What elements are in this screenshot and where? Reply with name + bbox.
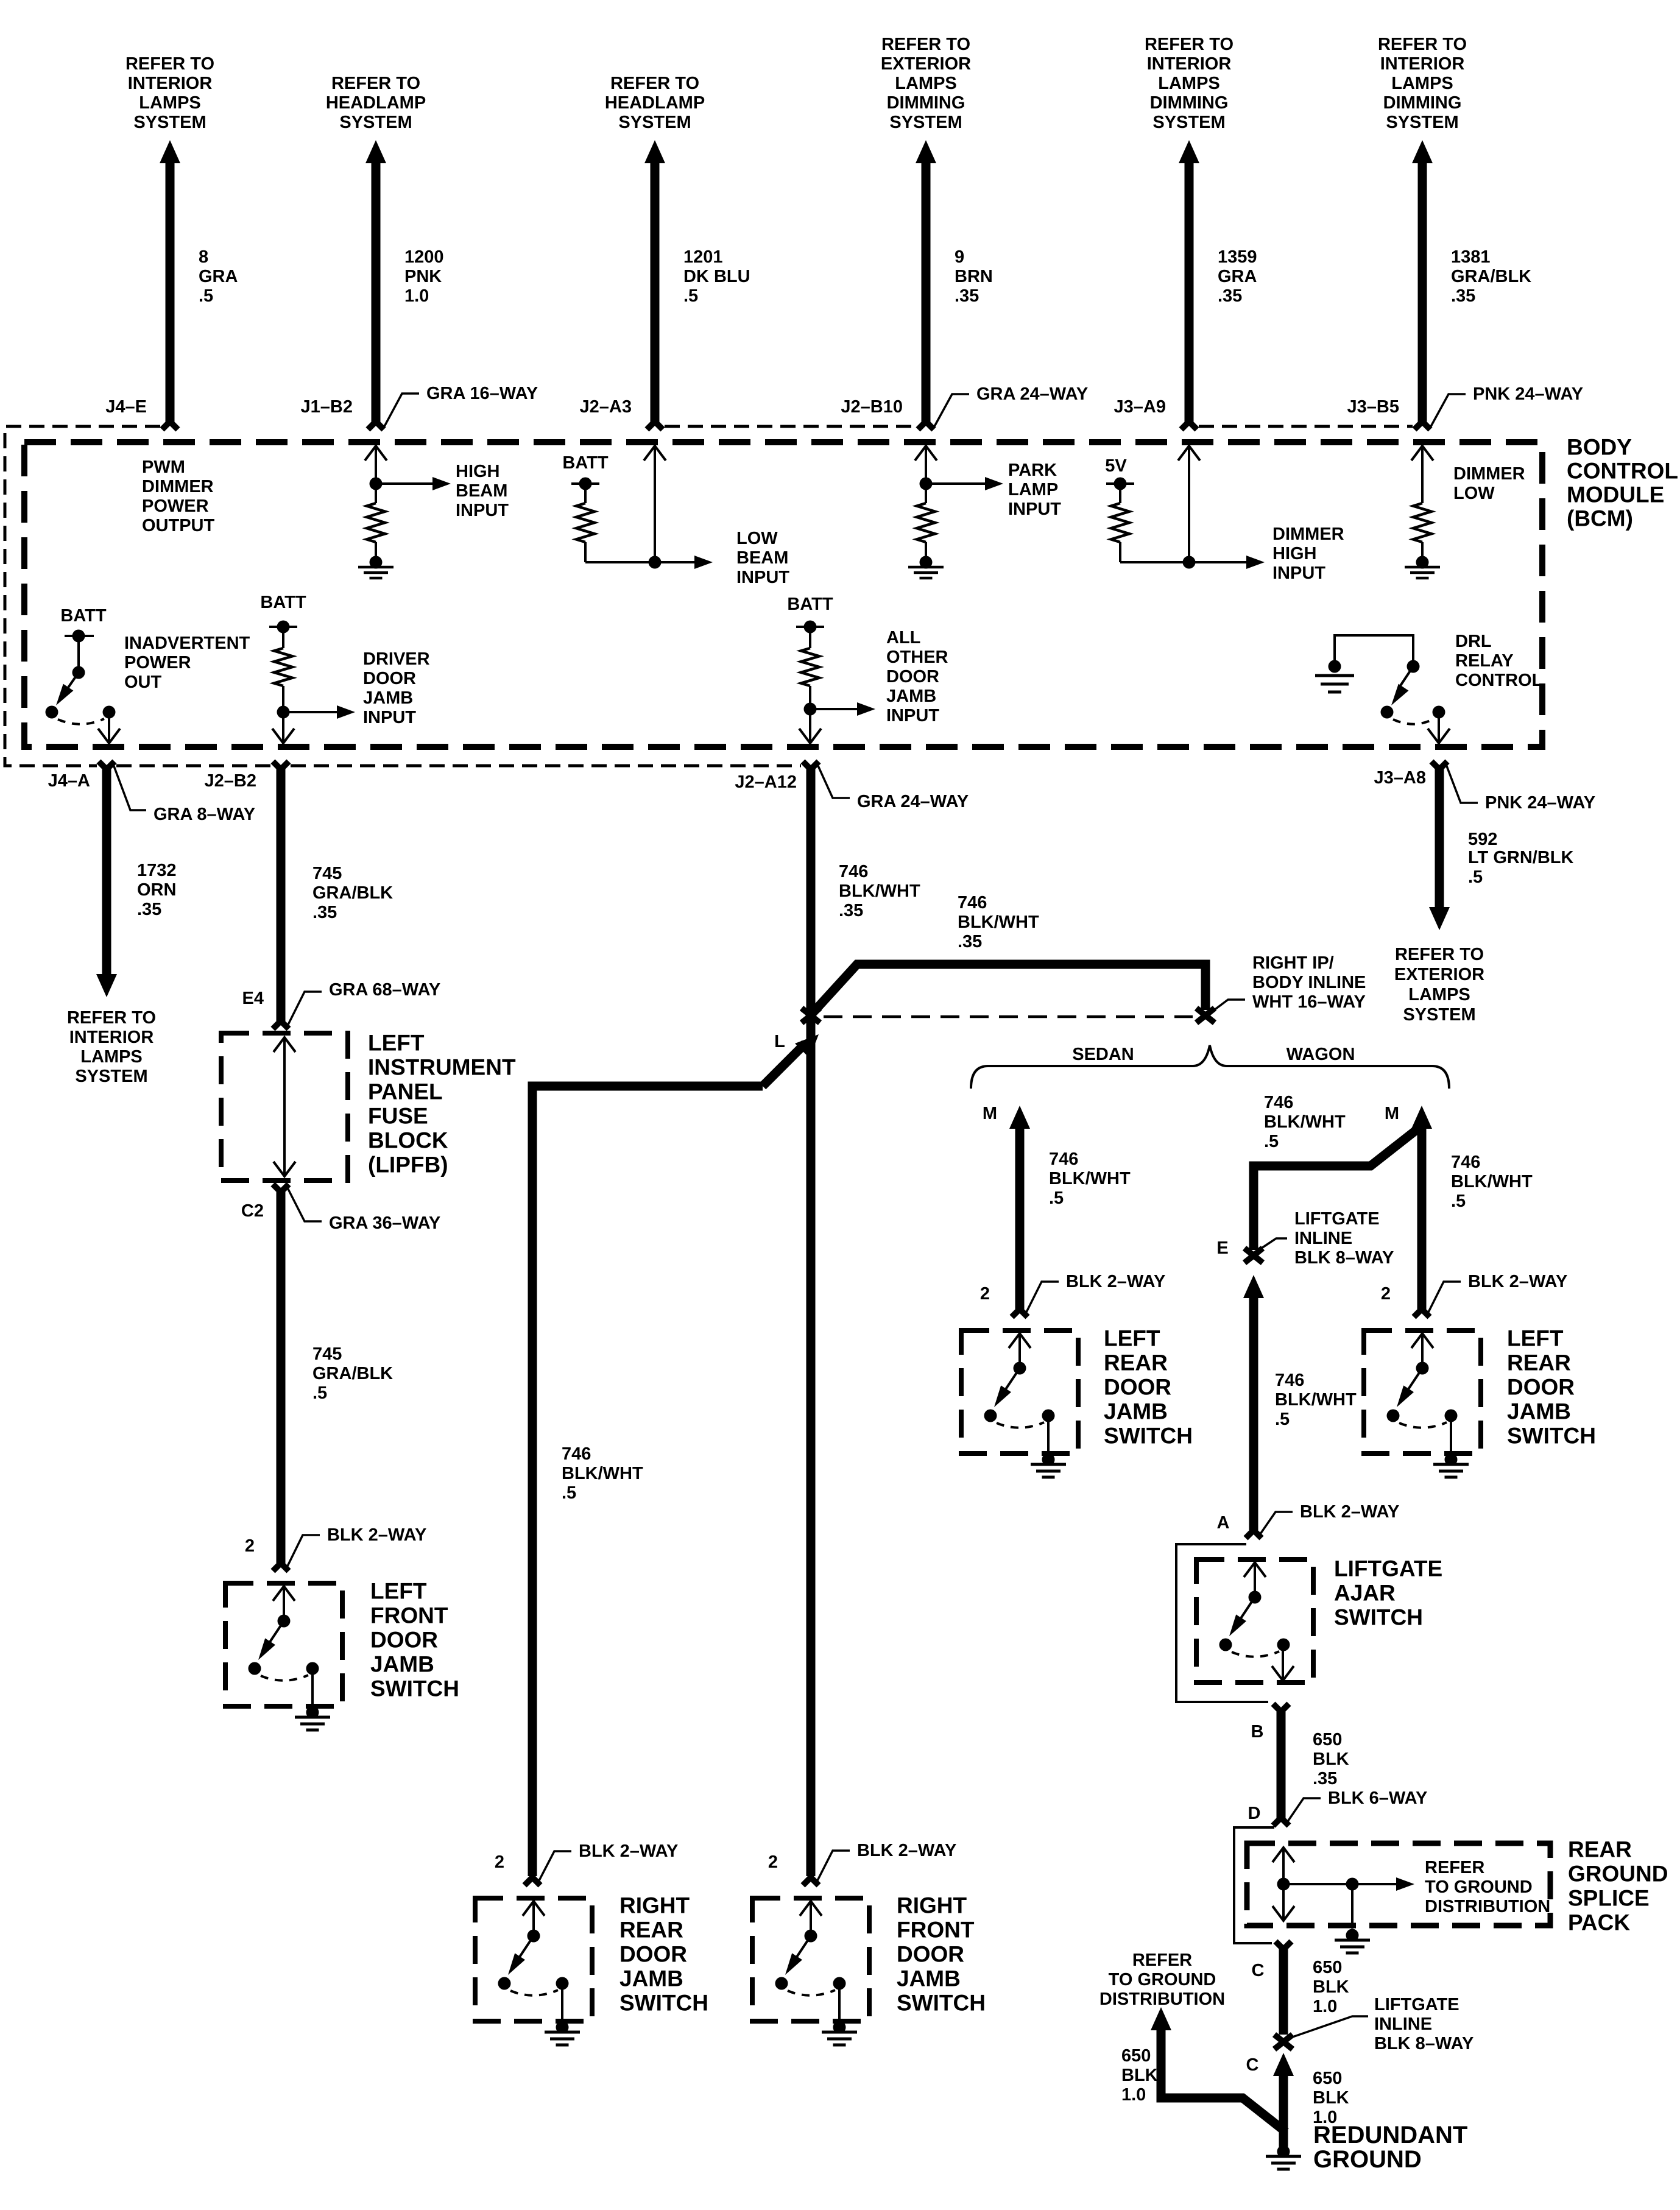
svg-text:PACK: PACK — [1568, 1910, 1630, 1935]
svg-text:LAMPS: LAMPS — [139, 93, 201, 113]
ground DRL relay — [1315, 674, 1354, 677]
LIPFB dashed component box — [221, 1033, 348, 1181]
liftgate ajar switch: pivot contact — [1219, 1639, 1232, 1651]
svg-text:REFER TO: REFER TO — [610, 74, 699, 93]
svg-text:BEAM: BEAM — [456, 481, 507, 501]
svg-text:PNK 24–WAY: PNK 24–WAY — [1473, 384, 1583, 404]
svg-text:INLINE: INLINE — [1294, 1229, 1352, 1248]
node J2-B10 junction — [920, 478, 933, 490]
inadvertent switch blade — [63, 673, 79, 694]
svg-text:EXTERIOR: EXTERIOR — [1394, 965, 1484, 984]
wire 1201 DK BLU to J2&#8211;A3 — [651, 163, 660, 422]
left rear door jamb switch (sedan): switch blade arrow — [1001, 1368, 1020, 1396]
arrowhead NE at node L — [795, 1034, 819, 1058]
svg-text:.5: .5 — [199, 286, 213, 306]
svg-text:C: C — [1246, 2055, 1259, 2075]
svg-text:.5: .5 — [1275, 1410, 1290, 1429]
svg-text:E4: E4 — [242, 989, 264, 1008]
svg-text:REAR: REAR — [1507, 1350, 1571, 1375]
svg-text:FRONT: FRONT — [370, 1603, 448, 1628]
DRL relay pivot — [1381, 706, 1394, 719]
right front door jamb switch: common contact — [805, 1930, 817, 1943]
svg-text:RIGHT: RIGHT — [897, 1893, 967, 1918]
connector chevron J3-A8 — [1431, 761, 1447, 769]
svg-text:FUSE: FUSE — [368, 1104, 428, 1129]
node 5V — [1114, 478, 1127, 490]
leader GRA 24-WAY (J2-A12) — [817, 764, 850, 798]
svg-text:GRA 24–WAY: GRA 24–WAY — [976, 384, 1088, 404]
svg-text:BLK/WHT: BLK/WHT — [1049, 1169, 1131, 1188]
node BATT all other door — [804, 621, 817, 634]
svg-text:M: M — [983, 1104, 997, 1123]
svg-text:HIGH: HIGH — [1272, 544, 1317, 563]
svg-text:C2: C2 — [241, 1201, 264, 1221]
left rear door jamb switch (wagon): pivot contact — [1387, 1410, 1400, 1422]
DRL relay blade — [1399, 666, 1413, 688]
wire to ALL OTHER DOOR JAMB INPUT — [810, 708, 857, 710]
svg-text:SWITCH: SWITCH — [370, 1676, 459, 1701]
svg-text:LOW: LOW — [1453, 484, 1495, 503]
right front door jamb switch: travel arc — [788, 1990, 835, 1996]
svg-text:REFER TO: REFER TO — [881, 35, 970, 54]
svg-text:REFER TO: REFER TO — [1378, 35, 1467, 54]
svg-text:OUTPUT: OUTPUT — [142, 516, 215, 535]
svg-text:1.0: 1.0 — [1313, 1997, 1337, 2016]
wire 745 GRA/BLK .5 — [277, 1192, 286, 1563]
leader RIGHT IP/BODY INLINE — [1213, 1000, 1245, 1011]
svg-text:SEDAN: SEDAN — [1072, 1045, 1134, 1064]
driver door output arrow — [282, 712, 284, 744]
svg-text:BLK/WHT: BLK/WHT — [562, 1464, 643, 1483]
connector chevron J2-A12 — [803, 761, 819, 769]
leader BLK 6-WAY — [1286, 1798, 1321, 1823]
left rear door jamb switch (sedan): dashed component box — [961, 1330, 1078, 1453]
svg-text:J4–A: J4–A — [48, 771, 90, 791]
liftgate ajar bypass outline — [1176, 1544, 1268, 1702]
liftgate ajar switch: dashed component box — [1196, 1559, 1313, 1682]
svg-text:1.0: 1.0 — [404, 286, 429, 306]
right rear door jamb switch: output contact — [556, 1977, 569, 1990]
svg-text:BLOCK: BLOCK — [368, 1128, 448, 1153]
svg-text:(LIPFB): (LIPFB) — [368, 1153, 448, 1177]
svg-text:JAMB: JAMB — [1104, 1399, 1168, 1424]
svg-text:SYSTEM: SYSTEM — [1152, 113, 1225, 132]
arrowhead up J4&#8211;E — [160, 140, 180, 163]
right rear door jamb switch: dashed component box — [475, 1898, 592, 2021]
leader GRA 16&#8211;WAY — [384, 394, 419, 426]
svg-text:BODY INLINE: BODY INLINE — [1252, 973, 1366, 992]
svg-text:SYSTEM: SYSTEM — [1386, 113, 1458, 132]
connector chevron A liftgate ajar — [1246, 1530, 1262, 1538]
svg-text:LAMPS: LAMPS — [1408, 985, 1470, 1004]
BCM J2-B10 input arrow — [925, 445, 927, 484]
svg-text:BEAM: BEAM — [736, 548, 788, 568]
node J3-A9 junction — [1183, 556, 1196, 569]
ground J3-B5 — [1416, 556, 1429, 569]
svg-text:INTERIOR: INTERIOR — [1380, 54, 1465, 74]
svg-text:1359: 1359 — [1218, 247, 1257, 267]
left rear door jamb switch (wagon): travel arc — [1399, 1422, 1447, 1428]
svg-text:DIMMER: DIMMER — [1272, 524, 1344, 544]
wire to DIMMER HIGH INPUT — [1189, 561, 1246, 563]
svg-text:SYSTEM: SYSTEM — [75, 1067, 147, 1086]
leader LIFTGATE INLINE BLK 8-WAY (C) — [1291, 2016, 1368, 2038]
right rear door jamb switch: wire to ground — [561, 1983, 563, 2025]
svg-text:GRA 68–WAY: GRA 68–WAY — [329, 980, 440, 1000]
svg-text:BLK 6–WAY: BLK 6–WAY — [1328, 1788, 1427, 1808]
svg-text:PANEL: PANEL — [368, 1079, 443, 1104]
svg-text:.5: .5 — [312, 1383, 327, 1403]
wire 746 BLK/WHT .35 (J2-A12) — [806, 769, 816, 1876]
svg-text:JAMB: JAMB — [897, 1966, 961, 1991]
svg-text:GRA: GRA — [1218, 267, 1257, 286]
rear ground splice pack dashed box — [1247, 1843, 1550, 1926]
wire 650 BLK .35 — [1277, 1712, 1286, 1818]
wire 650 BLK 1.0 (upper) — [1279, 1949, 1288, 2035]
svg-text:650: 650 — [1313, 1730, 1342, 1749]
arrowhead up ground distribution — [1151, 2007, 1171, 2030]
svg-text:M: M — [1385, 1104, 1399, 1123]
svg-text:DIMMER: DIMMER — [1453, 464, 1525, 484]
wire 746 BLK/WHT .35 jog to inline — [813, 964, 1205, 1013]
resistor J3-B5 dimmer low — [1413, 503, 1431, 542]
svg-text:DOOR: DOOR — [370, 1628, 438, 1653]
left rear door jamb switch (sedan): common contact — [1014, 1362, 1026, 1375]
connector chevron B — [1273, 1704, 1289, 1712]
leader BLK 2-WAY LRD wagon — [1427, 1282, 1461, 1315]
svg-text:745: 745 — [312, 864, 342, 883]
wire 9 BRN to J2&#8211;B10 — [922, 163, 931, 422]
wire 8 GRA to J4&#8211;E — [166, 163, 175, 422]
connector chevron RRD switch — [524, 1877, 540, 1885]
wire 650 BLK 1.0 (lower) — [1279, 2074, 1288, 2147]
svg-text:OTHER: OTHER — [886, 648, 948, 667]
svg-text:ORN: ORN — [137, 880, 176, 900]
arrowhead down J4-A — [96, 974, 117, 997]
svg-text:BLK: BLK — [1313, 1749, 1349, 1769]
svg-text:746: 746 — [958, 893, 987, 913]
svg-text:BATT: BATT — [260, 593, 306, 612]
svg-text:D: D — [1248, 1804, 1261, 1823]
svg-text:J1–B2: J1–B2 — [301, 397, 353, 417]
svg-text:.5: .5 — [1468, 867, 1483, 887]
svg-text:J2–B10: J2–B10 — [841, 397, 903, 417]
svg-text:DIMMER: DIMMER — [142, 477, 214, 496]
node BATT driver door — [277, 621, 290, 634]
connector chevron LRD sedan — [1012, 1309, 1028, 1317]
svg-text:SYSTEM: SYSTEM — [618, 113, 691, 132]
svg-text:FRONT: FRONT — [897, 1918, 975, 1943]
svg-text:C: C — [1252, 1961, 1265, 1980]
wire 746 BLK/WHT .5 (wagon M) — [1417, 1127, 1427, 1309]
svg-text:SWITCH: SWITCH — [897, 1991, 986, 2016]
svg-text:LIFTGATE: LIFTGATE — [1374, 1995, 1459, 2014]
svg-text:WAGON: WAGON — [1286, 1045, 1355, 1064]
inadvertent switch output contact — [103, 706, 116, 719]
svg-text:SYSTEM: SYSTEM — [339, 113, 412, 132]
svg-text:BLK/WHT: BLK/WHT — [958, 913, 1039, 932]
svg-text:LAMPS: LAMPS — [895, 74, 957, 93]
svg-text:LEFT: LEFT — [368, 1031, 425, 1056]
svg-text:BLK: BLK — [1121, 2066, 1158, 2085]
arrowhead up J2&#8211;B10 — [916, 140, 936, 163]
wire 592 LT GRN/BLK — [1435, 769, 1444, 908]
svg-text:REDUNDANT: REDUNDANT — [1313, 2122, 1467, 2148]
left front door jamb switch: switch blade arrow — [266, 1621, 284, 1648]
svg-text:SYSTEM: SYSTEM — [889, 113, 962, 132]
leader LIFTGATE INLINE BLK 8-WAY (E) — [1260, 1238, 1287, 1249]
arrowhead PARK LAMP INPUT — [985, 477, 1003, 490]
svg-text:2: 2 — [1381, 1284, 1391, 1304]
right front door jamb switch: input pin open arrow — [810, 1901, 812, 1936]
svg-text:INPUT: INPUT — [456, 501, 509, 520]
svg-text:1200: 1200 — [404, 247, 444, 267]
svg-text:.35: .35 — [312, 903, 337, 922]
ground J1-B2 — [370, 556, 383, 569]
left rear door jamb switch (wagon): common contact — [1416, 1362, 1429, 1375]
left rear door jamb switch (wagon): input pin open arrow — [1421, 1333, 1424, 1368]
left front door jamb switch: dashed component box — [225, 1583, 342, 1706]
svg-text:LAMPS: LAMPS — [1158, 74, 1220, 93]
svg-text:TO GROUND: TO GROUND — [1425, 1877, 1533, 1897]
svg-text:DIMMING: DIMMING — [1383, 93, 1462, 113]
svg-text:746: 746 — [839, 862, 868, 881]
left rear door jamb switch (sedan): output contact — [1042, 1410, 1055, 1422]
connector chevron RFD switch — [803, 1877, 819, 1885]
svg-text:DRL: DRL — [1455, 632, 1492, 651]
svg-text:JAMB: JAMB — [1507, 1399, 1571, 1424]
right front door jamb switch: dashed component box — [752, 1898, 869, 2021]
wire to HIGH BEAM INPUT — [376, 482, 432, 485]
svg-text:1201: 1201 — [683, 247, 723, 267]
svg-text:REFER TO: REFER TO — [67, 1008, 156, 1028]
svg-text:INPUT: INPUT — [736, 568, 789, 587]
connector chevron J4-A — [99, 761, 115, 769]
svg-text:INADVERTENT: INADVERTENT — [124, 634, 250, 653]
svg-text:CONTROL: CONTROL — [1567, 459, 1678, 484]
leader BLK 2-WAY LRD sedan — [1025, 1282, 1059, 1315]
right rear door jamb switch: input pin open arrow — [532, 1901, 535, 1936]
arrowhead up J2&#8211;A3 — [644, 140, 665, 163]
liftgate ajar switch: common contact — [1249, 1591, 1262, 1604]
left rear door jamb switch (wagon): wire to ground — [1450, 1416, 1452, 1457]
svg-text:.5: .5 — [1451, 1191, 1466, 1211]
svg-text:SWITCH: SWITCH — [1507, 1424, 1596, 1449]
svg-text:CONTROL: CONTROL — [1455, 671, 1542, 690]
svg-text:.35: .35 — [1313, 1769, 1337, 1788]
svg-text:.5: .5 — [683, 286, 698, 306]
svg-text:.35: .35 — [1451, 286, 1475, 306]
inline connector dashed interface — [824, 1015, 1193, 1019]
svg-text:745: 745 — [312, 1344, 342, 1364]
svg-text:DOOR: DOOR — [886, 667, 939, 687]
BCM J1-B2 input arrow — [375, 445, 377, 484]
connector chevron J4&#8211;E — [162, 422, 178, 429]
wire 1200 PNK to J1&#8211;B2 — [372, 163, 381, 422]
arrowhead up M (wagon) — [1411, 1106, 1432, 1129]
svg-text:.5: .5 — [1264, 1132, 1279, 1151]
svg-text:LIFTGATE: LIFTGATE — [1294, 1209, 1380, 1229]
right front door jamb switch: switch blade arrow — [792, 1936, 811, 1963]
splice pack arrow to ground distribution — [1352, 1883, 1396, 1885]
arrowhead up J3&#8211;B5 — [1412, 140, 1433, 163]
connector chevron LFD switch — [273, 1563, 289, 1571]
svg-text:RELAY: RELAY — [1455, 651, 1514, 671]
left rear door jamb switch (sedan): ground — [1042, 1453, 1055, 1466]
node BATT inadvertent — [72, 630, 85, 643]
leader PNK 24-WAY (J3-A8) — [1446, 764, 1478, 803]
inadvertent switch contact — [72, 666, 85, 679]
svg-text:SYSTEM: SYSTEM — [133, 113, 206, 132]
svg-text:JAMB: JAMB — [619, 1966, 683, 1991]
svg-text:INPUT: INPUT — [1272, 563, 1325, 583]
connector chevron J1&#8211;B2 — [368, 422, 384, 429]
svg-text:DOOR: DOOR — [619, 1942, 687, 1967]
svg-text:650: 650 — [1313, 2069, 1342, 2088]
svg-text:GRA/BLK: GRA/BLK — [312, 1364, 393, 1383]
svg-text:2: 2 — [980, 1284, 990, 1304]
svg-text:BLK 2–WAY: BLK 2–WAY — [1066, 1272, 1165, 1291]
left front door jamb switch: ground — [306, 1706, 319, 1719]
wire to PARK LAMP INPUT — [926, 482, 985, 485]
wire 746 BLK/WHT .5 (sedan) — [1015, 1127, 1025, 1309]
right front door jamb switch: ground — [833, 2021, 846, 2034]
svg-text:SPLICE: SPLICE — [1568, 1886, 1650, 1911]
left rear door jamb switch (sedan): travel arc — [997, 1422, 1044, 1428]
svg-text:BLK/WHT: BLK/WHT — [1275, 1390, 1357, 1410]
arrowhead DIMMER HIGH INPUT — [1246, 556, 1265, 569]
left front door jamb switch: wire to ground — [311, 1668, 314, 1710]
BCM J3-B5 input arrow — [1421, 445, 1424, 503]
svg-text:BLK 8–WAY: BLK 8–WAY — [1374, 2034, 1474, 2053]
arrowhead up C lower — [1273, 2053, 1294, 2076]
left front door jamb switch: pivot contact — [249, 1662, 261, 1675]
connector chevron J2&#8211;A3 — [647, 422, 663, 429]
svg-text:BLK 2–WAY: BLK 2–WAY — [579, 1841, 678, 1861]
svg-text:GROUND: GROUND — [1313, 2146, 1422, 2173]
svg-text:J2–A3: J2–A3 — [580, 397, 632, 417]
wire 1381 GRA/BLK to J3&#8211;B5 — [1418, 163, 1427, 422]
all other door output arrow — [809, 709, 811, 744]
leader GRA 68-WAY — [288, 992, 322, 1026]
leader BLK 2-WAY RFD — [816, 1851, 850, 1883]
arrowhead HIGH BEAM INPUT — [432, 477, 451, 490]
ground redundant — [1277, 2145, 1290, 2158]
left rear door jamb switch (wagon): switch blade arrow — [1404, 1368, 1422, 1396]
left rear door jamb switch (wagon): output contact — [1445, 1410, 1458, 1422]
svg-text:GRA: GRA — [199, 267, 238, 286]
ground splice pack — [1346, 1929, 1359, 1942]
splice pack bus wire — [1283, 1883, 1352, 1885]
svg-text:.35: .35 — [958, 932, 982, 951]
svg-text:BLK 2–WAY: BLK 2–WAY — [1300, 1502, 1399, 1522]
wire 746 BLK/WHT .5 (left leg) — [532, 1086, 763, 1876]
svg-text:GRA/BLK: GRA/BLK — [1451, 267, 1531, 286]
resistor BATT J2-A3 — [584, 484, 587, 503]
left front door jamb switch: output contact — [306, 1662, 319, 1675]
left rear door jamb switch (sedan): input pin open arrow — [1018, 1333, 1021, 1368]
BCM outer dashed outline (thin) — [5, 426, 1413, 766]
svg-text:INLINE: INLINE — [1374, 2014, 1432, 2034]
connector chevron C upper — [1276, 1941, 1291, 1949]
splice pack junction 1 — [1277, 1878, 1290, 1891]
arrowhead LOW BEAM INPUT — [694, 556, 713, 569]
svg-text:L: L — [774, 1032, 785, 1051]
svg-text:HEADLAMP: HEADLAMP — [605, 93, 705, 113]
svg-text:ALL: ALL — [886, 628, 920, 648]
svg-text:DK BLU: DK BLU — [683, 267, 750, 286]
BCM module dashed box — [24, 442, 1542, 747]
resistor 5V J3-A9 — [1119, 484, 1121, 503]
DRL relay top wire — [1335, 635, 1413, 662]
svg-text:746: 746 — [1451, 1153, 1480, 1172]
svg-text:5V: 5V — [1105, 456, 1127, 476]
svg-text:J4–E: J4–E — [105, 397, 147, 417]
svg-text:SWITCH: SWITCH — [1334, 1605, 1423, 1630]
DRL relay output contact — [1433, 706, 1445, 719]
inline connector C (liftgate inline) — [1274, 2035, 1293, 2049]
ground J2-B10 — [920, 556, 933, 569]
liftgate ajar switch output arrow — [1282, 1644, 1284, 1681]
svg-text:(BCM): (BCM) — [1567, 506, 1633, 531]
svg-text:BLK 2–WAY: BLK 2–WAY — [857, 1841, 956, 1860]
inline connector left (WHT 16-WAY) — [802, 1008, 820, 1023]
liftgate ajar switch: output contact — [1277, 1639, 1290, 1651]
leader BLK 2-WAY liftgate ajar — [1259, 1512, 1293, 1536]
wire BATT to junction — [585, 561, 655, 563]
svg-text:GRA 36–WAY: GRA 36–WAY — [329, 1213, 440, 1233]
resistor all other door — [809, 627, 811, 648]
svg-text:BLK/WHT: BLK/WHT — [1451, 1172, 1533, 1191]
arrowhead DRIVER DOOR JAMB INPUT — [337, 705, 355, 719]
svg-text:J3–A8: J3–A8 — [1374, 768, 1426, 788]
liftgate ajar switch: switch blade arrow — [1237, 1597, 1255, 1625]
svg-text:OUT: OUT — [124, 673, 162, 692]
DRL output arrow — [1438, 712, 1440, 744]
DRL relay right contact — [1407, 660, 1420, 673]
inadvertent output arrow — [108, 712, 110, 744]
connector chevron J3&#8211;A9 — [1181, 422, 1197, 429]
svg-text:J2–A12: J2–A12 — [735, 772, 797, 792]
node J1-B2 junction — [370, 478, 383, 490]
svg-text:2: 2 — [245, 1536, 255, 1556]
svg-text:JAMB: JAMB — [363, 688, 413, 708]
svg-text:REAR: REAR — [1104, 1350, 1168, 1375]
arrowhead up J1&#8211;B2 — [365, 140, 386, 163]
svg-text:PARK: PARK — [1008, 461, 1057, 480]
svg-text:LAMPS: LAMPS — [1391, 74, 1453, 93]
svg-text:2: 2 — [768, 1852, 778, 1872]
svg-text:GRA 8–WAY: GRA 8–WAY — [154, 805, 255, 824]
svg-text:746: 746 — [1264, 1093, 1293, 1112]
svg-text:650: 650 — [1313, 1958, 1342, 1977]
svg-text:GRA/BLK: GRA/BLK — [312, 883, 393, 903]
BCM J3-A9 input arrow — [1188, 445, 1190, 562]
LIPFB internal through arrow — [283, 1037, 286, 1177]
svg-text:WHT 16–WAY: WHT 16–WAY — [1252, 992, 1366, 1012]
svg-text:REFER TO: REFER TO — [125, 54, 214, 74]
svg-text:B: B — [1251, 1722, 1264, 1742]
svg-text:SWITCH: SWITCH — [619, 1991, 708, 2016]
right rear door jamb switch: common contact — [528, 1930, 540, 1943]
svg-text:LEFT: LEFT — [1507, 1326, 1564, 1351]
svg-text:746: 746 — [562, 1444, 591, 1464]
svg-text:BRN: BRN — [955, 267, 993, 286]
svg-text:746: 746 — [1049, 1149, 1078, 1169]
inadvertent switch arc — [58, 719, 104, 724]
svg-text:LT GRN/BLK: LT GRN/BLK — [1468, 848, 1573, 867]
node BATT J2-A3 — [579, 478, 592, 490]
